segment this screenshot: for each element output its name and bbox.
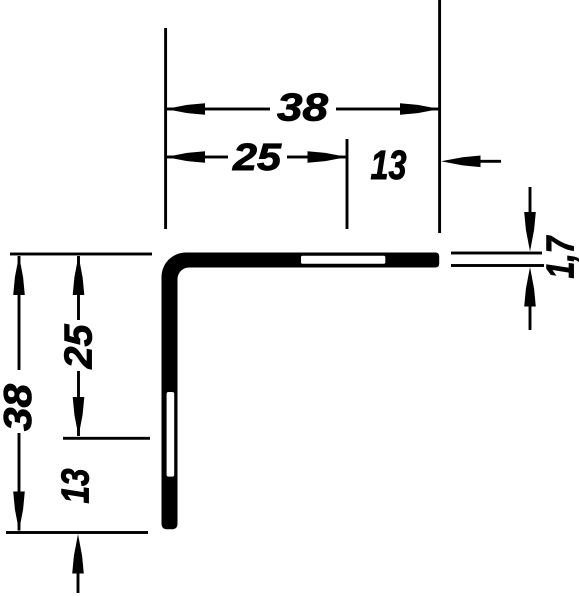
extension line H2 — [63, 437, 150, 440]
horizontal slot — [301, 256, 385, 264]
svg-text:13: 13 — [54, 468, 97, 503]
arrow 1,7 upper — [524, 212, 536, 252]
arrow 1,7 upper tail — [529, 187, 532, 214]
dim line 38 left lower segment — [18, 433, 21, 531]
tail line 13 top — [479, 160, 501, 163]
extension line 1,7 lower — [451, 264, 544, 267]
svg-text:38: 38 — [277, 87, 328, 130]
dim line 25 left lower segment — [77, 371, 80, 436]
svg-text:13: 13 — [371, 142, 407, 188]
extension line 1,7 upper — [451, 252, 542, 255]
svg-text:38: 38 — [0, 384, 40, 431]
arrow 1,7 lower tail — [529, 304, 532, 330]
dim line 25 top right segment — [287, 156, 347, 159]
arrow 38 top-right — [400, 103, 440, 115]
svg-text:25: 25 — [232, 137, 282, 179]
dim line 38 left upper segment — [18, 256, 21, 370]
arrow 25 left-top — [73, 256, 85, 296]
arrow 38 top-left — [166, 103, 206, 115]
arrow 25 top-left — [166, 151, 206, 163]
dim line 38 top right segment — [336, 108, 440, 111]
vertical slot — [167, 392, 175, 477]
arrow 38 left-bottom — [13, 492, 25, 532]
arrow 25 top-right — [308, 151, 348, 163]
arrow 38 left-top — [13, 256, 25, 296]
arrow 1,7 lower — [524, 267, 536, 307]
dim line 25 left upper segment — [77, 256, 80, 320]
extension line H1 — [10, 253, 152, 256]
extension line V3 — [438, 0, 441, 233]
extension line V2 — [346, 139, 349, 229]
tail line 13 left — [77, 572, 80, 593]
dim line 25 top left segment — [166, 156, 229, 159]
svg-text:1,7: 1,7 — [539, 235, 579, 279]
extension line V1 — [164, 28, 167, 229]
L-profile body — [162, 253, 440, 530]
dim line 38 top left segment — [166, 108, 271, 111]
arrow 13 left outside — [72, 534, 84, 574]
extension line H3 — [6, 531, 148, 534]
arrow 25 left-bottom — [73, 397, 85, 437]
arrow 13 top outside — [441, 156, 481, 168]
svg-text:25: 25 — [57, 323, 100, 369]
